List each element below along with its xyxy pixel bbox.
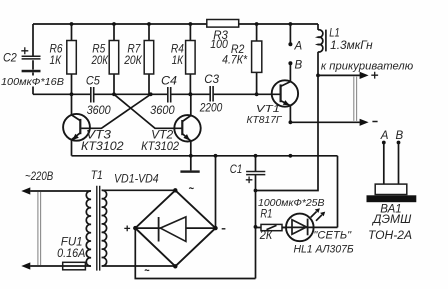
svg-text:1К: 1К <box>172 55 185 67</box>
wire - output to lighter plug <box>289 119 378 126</box>
svg-text:L1: L1 <box>329 27 340 39</box>
svg-text:R4: R4 <box>171 43 184 55</box>
svg-text:2К: 2К <box>259 230 274 242</box>
svg-text:R6: R6 <box>50 43 64 55</box>
transformer T1 secondary winding <box>102 190 176 266</box>
wire bridge plus to bottom return <box>135 228 255 278</box>
transformer T1 core <box>97 186 100 271</box>
svg-text:A: A <box>294 41 303 53</box>
wire rail to bridge minus <box>215 156 217 228</box>
LED HL1 <box>282 156 354 256</box>
wire cross-coupling R7 node to VT3 base <box>81 94 151 128</box>
capacitor C3 <box>199 74 223 114</box>
transistor VT2 <box>141 92 201 155</box>
svg-text:FU1: FU1 <box>61 236 83 248</box>
transistor VT3 <box>63 94 124 156</box>
mains input ~220В <box>21 171 53 270</box>
svg-text:C4: C4 <box>161 76 177 88</box>
svg-text:ТОН-2А: ТОН-2А <box>368 230 412 242</box>
svg-text:C2: C2 <box>3 51 17 65</box>
svg-text:VD1-VD4: VD1-VD4 <box>114 173 159 185</box>
svg-text:C3: C3 <box>204 74 219 86</box>
cable pair mark <box>354 77 357 121</box>
wire + feed vertical (L1 node down to C1 bottom node) <box>254 75 318 192</box>
inductor L1 <box>318 24 373 75</box>
wire + output to lighter plug <box>316 72 378 79</box>
resistor R6 <box>50 24 77 94</box>
svg-text:А: А <box>380 130 389 142</box>
svg-text:C1: C1 <box>230 162 243 176</box>
svg-text:4.7К*: 4.7К* <box>222 55 247 67</box>
wire coupling row <box>33 92 280 96</box>
svg-text:HL1 АЛ307Б: HL1 АЛ307Б <box>294 243 354 255</box>
capacitor C5 <box>86 76 111 117</box>
svg-text:100: 100 <box>210 39 228 51</box>
svg-text:R1: R1 <box>260 209 272 221</box>
transformer T1 primary winding <box>30 191 91 266</box>
svg-text:3600: 3600 <box>87 105 112 117</box>
resistor R7 <box>123 24 153 94</box>
svg-text:B: B <box>295 60 303 72</box>
svg-text:20К: 20К <box>91 55 109 67</box>
resistor R2 <box>222 24 262 96</box>
capacitor C2 <box>3 24 41 94</box>
svg-text:Т1: Т1 <box>91 170 103 182</box>
capacitor C1 <box>230 156 265 191</box>
svg-text:0.16А: 0.16А <box>57 248 86 260</box>
svg-text:ДЭМШ: ДЭМШ <box>371 214 412 226</box>
svg-text:В: В <box>396 130 404 142</box>
svg-text:"СЕТЬ": "СЕТЬ" <box>313 229 352 241</box>
resistor R3 (in series with top rail) <box>207 20 239 52</box>
bridge rectifier VD1-VD4 <box>114 173 225 270</box>
node B (VT1 collector) <box>288 60 302 72</box>
svg-text:VT1: VT1 <box>256 103 280 115</box>
svg-text:R7: R7 <box>127 43 141 55</box>
svg-text:1000мкФ*25В: 1000мкФ*25В <box>258 197 325 209</box>
svg-text:КТ3102: КТ3102 <box>141 141 180 153</box>
fuse FU1 <box>57 236 86 269</box>
resistor R5 <box>91 24 119 94</box>
svg-text:VT3: VT3 <box>86 129 112 141</box>
svg-text:3600: 3600 <box>150 105 175 117</box>
svg-text:~220В: ~220В <box>25 171 53 183</box>
svg-text:R5: R5 <box>92 43 106 55</box>
resistor R4 <box>171 24 195 94</box>
wire top +rail <box>33 22 318 26</box>
speaker BA1 <box>367 130 417 242</box>
svg-text:2200: 2200 <box>199 102 223 114</box>
resistor R1 <box>254 191 288 279</box>
capacitor C4 <box>150 76 177 117</box>
node A (stub from +rail) <box>288 24 302 53</box>
ground chassis symbol <box>180 156 199 173</box>
svg-text:100мкФ*16В: 100мкФ*16В <box>1 76 64 88</box>
svg-text:VT2: VT2 <box>151 129 174 141</box>
wire cross-coupling R5 node to VT2 base <box>114 94 182 128</box>
svg-text:20К: 20К <box>123 55 142 67</box>
svg-text:КТ817Г: КТ817Г <box>247 114 283 126</box>
svg-text:КТ3102: КТ3102 <box>81 141 124 153</box>
svg-text:1К: 1К <box>50 55 63 67</box>
svg-text:1.3мкГн: 1.3мкГн <box>330 40 373 52</box>
value label 100мкФ*16В <box>0 76 66 88</box>
svg-text:к прикуривателю: к прикуривателю <box>321 60 413 72</box>
wire common rail <box>72 154 338 158</box>
transistor VT1 <box>247 63 299 126</box>
svg-text:C5: C5 <box>86 76 101 88</box>
